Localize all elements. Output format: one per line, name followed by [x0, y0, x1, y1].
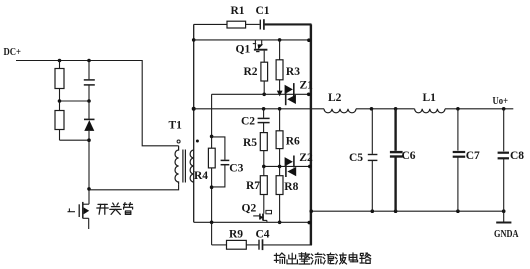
resistor R6 — [276, 131, 283, 149]
wire R7 bottom to Q2 drain — [263, 195, 265, 214]
capacitor C5 — [368, 109, 378, 211]
capacitor C7 — [453, 109, 466, 211]
capacitor C2 — [258, 109, 270, 133]
ground GNDA symbol — [496, 211, 511, 222]
wire B output row left — [194, 108, 324, 110]
svg-text:Z1: Z1 — [300, 80, 314, 92]
transistor switch MOSFET (开关管) — [68, 202, 90, 229]
capacitor C1 — [260, 19, 264, 30]
node DC+ input label — [4, 46, 22, 58]
wire clamp bottom tie — [60, 139, 90, 141]
wire down to switch drain — [88, 140, 90, 204]
wire M middle divider row — [264, 165, 311, 167]
diode Z2 lower element — [286, 164, 296, 177]
wire right vertical bus (bold) — [310, 24, 312, 245]
junction rail / C7 — [456, 209, 460, 213]
caption 输出整流滤波电路 (流) — [311, 253, 322, 264]
svg-text:C3: C3 — [229, 162, 243, 174]
wire snubber capacitor top lead — [88, 61, 90, 80]
wire snubber resistor bottom lead — [59, 89, 61, 102]
junction rail / C6 — [394, 209, 398, 213]
wire R9 branch down — [211, 222, 213, 245]
junction center vertical / R4C3 bottom — [210, 185, 214, 189]
wire R7 top lead — [263, 166, 265, 175]
resistor snubber upper (unlabeled) — [55, 69, 64, 89]
inductor L2 — [324, 109, 356, 113]
junction snubber mid left — [58, 99, 62, 103]
resistor R7 label — [246, 180, 260, 192]
wire clamp resistor top lead — [59, 101, 61, 111]
wire R9 to C4 — [246, 244, 258, 246]
wire snubber mid tie — [60, 100, 90, 102]
wire center vertical (wire A down to gate rail) — [211, 94, 213, 222]
caption 输出整流滤波电路 (路) — [360, 253, 371, 263]
svg-text:Q2: Q2 — [242, 202, 257, 214]
junction wire A / right bus — [307, 93, 311, 97]
svg-text:R5: R5 — [243, 137, 257, 149]
capacitor C3 with leads — [212, 137, 230, 187]
svg-text:C4: C4 — [256, 229, 270, 241]
node Uo+ output label — [493, 96, 509, 107]
junction rail / C5 — [371, 209, 375, 213]
transformer T1 primary winding — [175, 146, 179, 184]
svg-text:R1: R1 — [231, 5, 245, 17]
wire R1 to C1 — [246, 23, 260, 25]
inductor L1 — [415, 109, 445, 113]
junction wire B / C2 column — [262, 107, 266, 111]
junction gate row / R3 column — [278, 38, 282, 42]
svg-text:C6: C6 — [402, 150, 416, 162]
diode Z1 lower element — [286, 92, 296, 105]
wire B output row middle — [356, 108, 415, 110]
label 开关管 switch-tube text (开) — [97, 204, 108, 214]
wire transformer primary bottom return — [89, 184, 179, 190]
wire gate-drive row — [194, 39, 310, 41]
label 开关管 switch-tube text (关) — [110, 203, 121, 214]
diode Z1 upper element — [285, 83, 294, 96]
transformer T1 core — [183, 150, 186, 183]
junction snubber mid right — [87, 99, 91, 103]
resistor R4 label — [194, 170, 208, 182]
resistor R9 — [227, 240, 247, 249]
wire top row left segment — [194, 23, 227, 25]
resistor R3 label — [286, 66, 300, 78]
wire A gate feedback row — [212, 93, 310, 95]
resistor R4 — [208, 148, 215, 168]
svg-text:L2: L2 — [328, 92, 342, 104]
transformer primary polarity dot — [177, 140, 180, 143]
junction wire M / right bus — [308, 165, 312, 169]
junction wire B / R6 column — [278, 107, 282, 111]
svg-text:R7: R7 — [246, 180, 260, 192]
wire B output row right — [445, 108, 513, 110]
capacitor C7 label — [466, 150, 480, 162]
caption 输出整流滤波电路 (整) — [299, 253, 310, 264]
capacitor C6 (bold electrolytic) — [390, 109, 403, 211]
capacitor C5 label — [349, 152, 363, 164]
transistor Q1 label — [236, 43, 251, 55]
junction wire B / C7 — [456, 107, 460, 111]
wire R5 bottom lead — [263, 151, 265, 167]
wire bottom return rail — [310, 210, 504, 212]
junction on DC+ rail at R-snubber column — [58, 59, 62, 63]
junction R8 / gate rail — [278, 221, 282, 225]
resistor clamp lower (unlabeled) — [55, 111, 64, 130]
inductor L2 label — [328, 92, 342, 104]
transformer T1 label — [169, 119, 183, 131]
svg-text:R4: R4 — [194, 170, 208, 182]
svg-text:Z2: Z2 — [299, 152, 313, 164]
svg-text:C1: C1 — [256, 5, 270, 17]
junction wire B / C5 — [370, 107, 374, 111]
resistor R5 — [260, 133, 267, 151]
svg-text:R6: R6 — [286, 136, 300, 148]
resistor R3 — [276, 60, 283, 80]
svg-text:R3: R3 — [286, 66, 300, 78]
junction on DC+ rail at C-snubber column — [87, 59, 91, 63]
caption 输出整流滤波电路 (输) — [274, 253, 285, 263]
junction wire B / C6 — [394, 107, 398, 111]
resistor R8 label — [284, 181, 298, 193]
svg-text:T1: T1 — [169, 119, 183, 131]
resistor R5 label — [243, 137, 257, 149]
transformer secondary polarity dot — [196, 140, 199, 143]
svg-text:GNDA: GNDA — [494, 229, 519, 240]
svg-text:Uo+: Uo+ — [493, 96, 509, 107]
svg-text:L1: L1 — [423, 92, 437, 104]
wire R6 bottom lead — [279, 149, 281, 167]
resistor R9 label — [229, 229, 243, 241]
resistor R2 label — [244, 66, 258, 78]
resistor R2 — [261, 62, 268, 81]
junction left bus / gate-drive row — [192, 38, 196, 42]
junction clamp bottom — [87, 138, 91, 142]
label 开关管 switch-tube text (管) — [124, 203, 133, 215]
junction wire B / C8 at Uo+ — [502, 107, 506, 111]
caption 输出整流滤波电路 (滤) — [323, 253, 334, 264]
wire C1 to right bus (bold) — [265, 23, 312, 25]
resistor R1 — [227, 21, 246, 28]
transistor Q2 label — [242, 202, 257, 214]
wire clamp diode top lead — [88, 101, 90, 119]
junction gate row / right bus — [307, 38, 311, 42]
caption 输出整流滤波电路 (电) — [349, 253, 357, 262]
svg-text:C2: C2 — [241, 116, 255, 128]
junction rail / C8 GND node — [502, 209, 506, 213]
transformer T1 secondary winding — [190, 150, 194, 182]
svg-text:Q1: Q1 — [236, 43, 251, 55]
transistor Q2 MOSFET — [253, 210, 271, 222]
junction gate rail / right bus — [308, 221, 312, 225]
junction left bus / output row — [192, 107, 196, 111]
wire gate rail bottom — [194, 221, 310, 223]
junction R2 / wire A — [262, 93, 266, 97]
wire R3 bottom lead with arrowhead — [277, 80, 283, 97]
capacitor C8 label — [510, 150, 524, 162]
capacitor C4 — [259, 239, 263, 250]
diode clamp (points up, unlabeled) — [84, 119, 95, 140]
junction wire M / R5R7 column — [262, 165, 266, 169]
junction wire M / R6R8 column — [278, 165, 282, 169]
resistor R8 — [276, 176, 283, 195]
wire snubber resistor top lead — [59, 61, 61, 69]
capacitor snubber (unlabeled) — [84, 80, 95, 101]
svg-text:C8: C8 — [510, 150, 524, 162]
junction gate rail / center vertical — [210, 221, 214, 225]
resistor R6 label — [286, 136, 300, 148]
wire R9 left lead — [212, 244, 227, 246]
svg-text:C5: C5 — [349, 152, 363, 164]
svg-text:R8: R8 — [284, 181, 298, 193]
wire R8 bottom lead — [279, 195, 281, 223]
ground GNDA label — [494, 229, 519, 240]
capacitor C4 label — [256, 229, 270, 241]
resistor R1 label — [231, 5, 245, 17]
diode Z2 label — [299, 152, 313, 164]
wire R6 top lead — [279, 109, 281, 131]
wire clamp resistor bottom lead — [59, 130, 61, 141]
wire DC+ rail to transformer primary top — [16, 61, 179, 146]
svg-text:R9: R9 — [229, 229, 243, 241]
capacitor C2 label — [241, 116, 255, 128]
diode Z1 label — [300, 80, 314, 92]
svg-text:R2: R2 — [244, 66, 258, 78]
wire R3 top lead — [279, 40, 281, 60]
caption 输出整流滤波电路 (出) — [287, 253, 297, 264]
capacitor C3 label — [229, 162, 243, 174]
svg-text:DC+: DC+ — [4, 46, 22, 58]
capacitor C1 label — [256, 5, 270, 17]
wire left secondary bus — [193, 24, 195, 222]
caption 输出整流滤波电路 (波) — [335, 253, 346, 264]
transistor Q1 MOSFET — [253, 40, 268, 62]
wire R2 bottom lead — [263, 81, 265, 94]
junction rail / right bus — [309, 209, 313, 213]
junction primary-return / drain node — [87, 187, 91, 191]
svg-text:C7: C7 — [466, 150, 480, 162]
junction center vertical / R4C3 top — [210, 135, 214, 139]
wire R8 top lead — [279, 166, 281, 175]
capacitor C6 label — [402, 150, 416, 162]
resistor R7 — [260, 176, 267, 195]
wire C4 to right bus — [263, 244, 312, 246]
inductor L1 label — [423, 92, 437, 104]
diode Z2 upper element — [285, 156, 294, 168]
capacitor C8 — [498, 109, 509, 211]
